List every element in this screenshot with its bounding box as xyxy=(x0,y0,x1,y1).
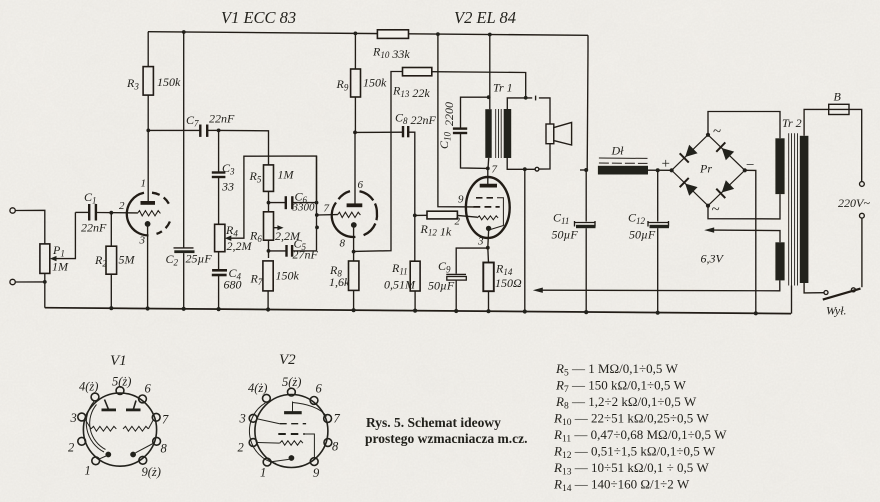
svg-text:4(ż): 4(ż) xyxy=(248,381,267,395)
svg-text:4(ż): 4(ż) xyxy=(79,380,98,394)
resistor R10 xyxy=(377,30,408,39)
screen supply wire (pin 9) xyxy=(438,34,474,207)
node xyxy=(146,306,150,310)
V2 heater arc xyxy=(249,403,276,464)
capacitor C3 xyxy=(212,173,226,225)
svg-text:R13 — 10÷51 kΩ/0,1 ÷ 0,5 W: R13 — 10÷51 kΩ/0,1 ÷ 0,5 W xyxy=(553,460,709,478)
node xyxy=(413,309,417,313)
choke Dl laminations xyxy=(599,158,648,163)
wire xyxy=(15,281,45,283)
V1 base pin 3 xyxy=(78,413,86,421)
node bridge bottom ~ xyxy=(706,204,710,208)
svg-text:~: ~ xyxy=(713,124,721,140)
V1 base pin 2 xyxy=(78,437,86,445)
capacitor C12 xyxy=(648,170,670,313)
svg-text:3: 3 xyxy=(70,411,77,425)
svg-text:1,6k: 1,6k xyxy=(329,275,350,289)
transformer Tr2 HV winding xyxy=(775,138,784,194)
wire Tr2 core to ground xyxy=(791,286,793,314)
V2 g1 xyxy=(258,441,303,446)
V2 base pin 8 xyxy=(324,439,332,447)
label R2 xyxy=(94,253,136,269)
pin number 8 xyxy=(340,238,346,250)
diode D3 (top-right) xyxy=(716,142,734,160)
label C11 xyxy=(552,211,579,242)
capacitor C9 xyxy=(446,248,488,311)
transformer Tr1 primary winding xyxy=(485,109,491,158)
capacitor C4 xyxy=(212,270,227,309)
node xyxy=(656,168,660,172)
screen grid g2 of V2 (pin 9) xyxy=(474,206,500,208)
svg-text:50µF: 50µF xyxy=(629,228,656,242)
svg-text:V2: V2 xyxy=(279,352,296,368)
svg-text:V1: V1 xyxy=(110,353,127,369)
node xyxy=(352,250,356,254)
svg-text:2: 2 xyxy=(68,441,74,455)
label R3 xyxy=(126,75,181,92)
svg-text:1: 1 xyxy=(85,464,91,478)
svg-text:6: 6 xyxy=(358,179,364,191)
svg-text:prostego wzmacniacza m.cz.: prostego wzmacniacza m.cz. xyxy=(365,431,527,446)
tube base V2 title xyxy=(279,352,296,368)
label R13 xyxy=(392,84,430,101)
node bridge + xyxy=(670,168,674,172)
grid node vertical xyxy=(316,156,318,251)
wire bridge top to Tr2 HV top xyxy=(708,112,780,139)
diode D1 (top-left) xyxy=(680,144,698,162)
tube V1b envelope xyxy=(332,191,377,237)
node xyxy=(584,168,588,172)
label R11 xyxy=(384,261,416,292)
wire Tr2 primary top to fuse xyxy=(804,109,829,135)
tube V1a envelope xyxy=(127,193,170,236)
wire xyxy=(219,130,269,165)
cathode of V2 (pin 3) xyxy=(486,226,491,248)
pin number 9 xyxy=(458,194,464,206)
V2 base pin 3 xyxy=(249,414,257,422)
resistor R7 xyxy=(263,261,273,310)
svg-text:150k: 150k xyxy=(157,75,181,89)
node xyxy=(454,309,458,313)
label C10 rotated xyxy=(437,102,456,149)
V2 base pin 5 xyxy=(288,388,296,396)
node xyxy=(584,310,588,314)
svg-text:7: 7 xyxy=(334,412,341,426)
V1 base pin 7 xyxy=(152,413,160,421)
svg-text:27nF: 27nF xyxy=(293,248,319,262)
label C12 xyxy=(628,211,656,242)
node xyxy=(436,32,440,36)
V2 base pin 4 xyxy=(263,394,271,402)
diode D2 (bottom-left) xyxy=(680,178,698,196)
label B fuse xyxy=(834,90,842,104)
node xyxy=(43,280,47,284)
svg-text:Wył.: Wył. xyxy=(826,304,847,318)
label R4 xyxy=(225,223,253,253)
B+ feed wire xyxy=(580,35,588,170)
label plus xyxy=(662,156,670,172)
svg-text:9(ż): 9(ż) xyxy=(142,465,161,479)
label Wyl xyxy=(826,304,847,318)
node xyxy=(266,307,270,311)
svg-text:7: 7 xyxy=(492,164,498,176)
label R6 xyxy=(249,229,301,245)
label minus xyxy=(746,158,754,174)
svg-text:Tr 2: Tr 2 xyxy=(782,116,802,130)
svg-text:B: B xyxy=(834,90,842,104)
label C6 xyxy=(292,190,316,214)
ground rail xyxy=(45,308,791,314)
svg-text:7: 7 xyxy=(324,203,330,215)
tube base V1 circle xyxy=(83,393,156,466)
bridge rectifier Pr frame xyxy=(672,135,745,206)
V1 heater arc xyxy=(86,402,105,453)
svg-text:5M: 5M xyxy=(119,253,136,267)
V2 g3 dashes xyxy=(257,419,306,424)
svg-text:150Ω: 150Ω xyxy=(495,276,522,290)
suppressor grid g3 of V2 xyxy=(476,198,503,230)
wire terminal to switch xyxy=(861,218,863,287)
V2 g2 dashes xyxy=(278,434,314,457)
cathode of V1b (pin 8) xyxy=(351,222,357,261)
wiper of R6 xyxy=(274,225,284,230)
V2 base pin 9 xyxy=(310,458,318,466)
capacitor C7 xyxy=(148,125,218,137)
capacitor C6 xyxy=(269,196,317,209)
svg-text:33: 33 xyxy=(221,180,234,194)
wire bridge bottom to Tr2 HV bottom xyxy=(708,194,780,219)
node xyxy=(217,307,221,311)
label ~ bottom xyxy=(712,202,720,218)
secondary bottom wire xyxy=(507,144,550,171)
svg-text:7: 7 xyxy=(162,413,169,427)
label P1 xyxy=(52,243,69,274)
node xyxy=(486,309,490,313)
tube V2 envelope xyxy=(466,177,510,238)
svg-text:1: 1 xyxy=(260,466,266,480)
node bridge - xyxy=(743,168,747,172)
label C9 xyxy=(428,259,455,293)
tube base V1 title xyxy=(110,353,127,369)
label C4 xyxy=(224,266,242,292)
svg-text:22nF: 22nF xyxy=(209,112,235,126)
label C5 xyxy=(293,237,319,262)
svg-text:R8 — 1,2÷2 kΩ/0,1÷0,5 W: R8 — 1,2÷2 kΩ/0,1÷0,5 W xyxy=(555,394,697,412)
wire xyxy=(648,169,672,171)
node xyxy=(267,201,271,205)
transformer Tr1 primary wire xyxy=(488,35,490,169)
tube base V2 circle xyxy=(255,395,328,468)
anode of V1b (pin 6) xyxy=(347,132,363,205)
node xyxy=(524,96,528,100)
V1 anode a'' xyxy=(126,401,141,410)
node xyxy=(182,307,186,311)
pin number 3 of V2 xyxy=(477,236,484,248)
svg-text:6: 6 xyxy=(145,382,152,396)
wiper of P1 xyxy=(50,212,76,261)
node xyxy=(486,246,490,250)
wire grid V1b xyxy=(317,214,338,216)
V1 base pin 8 xyxy=(153,437,161,445)
node xyxy=(486,167,490,171)
svg-text:R10 — 22÷51 kΩ/0,25÷0,5 W: R10 — 22÷51 kΩ/0,25÷0,5 W xyxy=(553,411,709,429)
label R8 xyxy=(329,263,350,289)
pin number 6 xyxy=(358,179,364,191)
svg-text:6,3V: 6,3V xyxy=(701,252,725,266)
capacitor C10 xyxy=(453,97,489,168)
pin number 1 xyxy=(141,178,147,190)
wiper of R4 xyxy=(225,156,317,241)
svg-text:9: 9 xyxy=(458,194,464,206)
switch Wyl xyxy=(804,283,860,300)
node xyxy=(315,226,319,230)
V2 pin labels xyxy=(238,375,341,480)
node xyxy=(109,211,113,215)
node xyxy=(488,33,492,37)
resistor R14 xyxy=(483,248,494,312)
resistor R8 xyxy=(349,261,359,310)
node xyxy=(656,311,660,315)
label 6,3V xyxy=(701,252,725,266)
V2 base pin 7 xyxy=(324,415,332,423)
svg-text:50µF: 50µF xyxy=(428,279,455,293)
wire xyxy=(15,210,45,244)
label R10 xyxy=(372,45,410,62)
node bridge top ~ xyxy=(706,133,710,137)
label Pr xyxy=(699,162,712,176)
node xyxy=(182,30,186,34)
node xyxy=(267,249,271,253)
svg-text:3: 3 xyxy=(139,235,146,247)
label ~ top xyxy=(713,124,721,140)
svg-text:Pr: Pr xyxy=(699,162,712,176)
fuse B xyxy=(829,104,849,114)
label 220V xyxy=(838,196,870,210)
resistor R11 xyxy=(410,261,420,311)
svg-text:8: 8 xyxy=(340,238,346,250)
svg-text:2: 2 xyxy=(455,216,461,228)
top rail xyxy=(148,32,588,36)
wire xyxy=(44,273,46,307)
V1 pin labels xyxy=(68,375,169,480)
caption xyxy=(365,415,527,446)
svg-text:+: + xyxy=(662,156,670,172)
svg-text:V2 EL 84: V2 EL 84 xyxy=(454,8,516,27)
pin number 3 xyxy=(139,235,146,247)
label Dl xyxy=(611,144,625,158)
svg-text:8: 8 xyxy=(161,442,168,456)
capacitor C1 xyxy=(75,204,137,221)
pin number 2 of V2 xyxy=(455,216,461,228)
svg-text:R7 — 150 kΩ/0,1÷0,5 W: R7 — 150 kΩ/0,1÷0,5 W xyxy=(555,378,687,396)
grid of V1a (pin 2) xyxy=(137,211,160,216)
V1 grid g' xyxy=(85,420,116,432)
node xyxy=(109,306,113,310)
potentiometer R6 xyxy=(264,212,274,258)
svg-text:1: 1 xyxy=(141,178,147,190)
node xyxy=(353,131,357,135)
label Tr1 xyxy=(493,81,513,95)
pin number 2 xyxy=(119,200,125,212)
potentiometer P1 xyxy=(40,244,50,274)
svg-text:5(ż): 5(ż) xyxy=(282,375,301,389)
diode D4 (bottom-right) xyxy=(716,180,734,198)
secondary top wire xyxy=(507,96,550,124)
label R14 xyxy=(495,262,522,291)
svg-text:9: 9 xyxy=(313,466,320,480)
node xyxy=(146,129,150,133)
control grid g1 of V2 (pin 2) xyxy=(477,216,498,220)
6.3V heater wire 2 xyxy=(533,280,780,293)
pin number 7 xyxy=(324,203,330,215)
node xyxy=(413,214,417,218)
wire xyxy=(183,32,185,248)
V1 base pin 1 xyxy=(92,457,100,465)
node xyxy=(315,213,319,217)
capacitor C5 xyxy=(269,245,317,257)
V1 grid g'' xyxy=(123,420,153,431)
svg-text:5(ż): 5(ż) xyxy=(112,375,131,389)
svg-text:R11 — 0,47÷0,68 MΩ/0,1÷0,5 W: R11 — 0,47÷0,68 MΩ/0,1÷0,5 W xyxy=(553,427,727,445)
node xyxy=(352,308,356,312)
V2 base pin 6 xyxy=(310,397,318,405)
svg-text:Rys. 5. Schemat ideowy: Rys. 5. Schemat ideowy xyxy=(366,415,501,430)
anode of V2 (pin 7) xyxy=(480,168,497,185)
node xyxy=(315,201,319,205)
svg-text:~: ~ xyxy=(712,202,720,218)
transformer Tr1 core xyxy=(496,109,502,158)
svg-text:680: 680 xyxy=(224,278,242,292)
6.3V heater wire 1 xyxy=(704,227,780,242)
svg-text:6: 6 xyxy=(316,382,323,396)
svg-text:1M: 1M xyxy=(278,168,295,182)
svg-text:Tr 1: Tr 1 xyxy=(493,81,513,95)
resistor R5 xyxy=(264,165,274,212)
V1 cathode k' xyxy=(99,452,111,460)
svg-text:150k: 150k xyxy=(363,76,387,90)
label C1 xyxy=(81,190,107,235)
svg-text:0,51M: 0,51M xyxy=(384,278,416,292)
cathode of V1a (pin 3) xyxy=(145,221,151,308)
node xyxy=(217,129,221,133)
label R9 xyxy=(336,76,388,93)
node xyxy=(354,32,358,36)
svg-text:3300: 3300 xyxy=(292,202,316,214)
svg-text:220V~: 220V~ xyxy=(838,196,870,210)
transformer Tr1 secondary winding xyxy=(504,109,512,158)
svg-text:R12 — 0,51÷1,5 kΩ/0,1÷0,5 W: R12 — 0,51÷1,5 kΩ/0,1÷0,5 W xyxy=(553,444,716,462)
svg-text:3: 3 xyxy=(239,412,246,426)
svg-text:−: − xyxy=(746,158,754,174)
svg-text:50µF: 50µF xyxy=(552,228,579,242)
capacitor C2 xyxy=(174,248,195,309)
transformer Tr2 heater winding xyxy=(775,242,784,280)
svg-text:R14 — 140÷160 Ω/1÷2 W: R14 — 140÷160 Ω/1÷2 W xyxy=(553,477,690,495)
capacitor C11 xyxy=(574,170,596,312)
svg-text:2: 2 xyxy=(119,200,125,212)
svg-text:V1 ECC 83: V1 ECC 83 xyxy=(221,8,296,27)
svg-text:Dł: Dł xyxy=(611,144,625,158)
V2 cathode xyxy=(271,455,294,462)
V1 base pin 5 xyxy=(116,387,124,395)
V1 cathode k'' xyxy=(130,444,153,458)
V2 anode xyxy=(284,402,326,417)
transformer Tr2 core xyxy=(789,133,798,285)
svg-text:2,2M: 2,2M xyxy=(227,239,253,253)
label C8 xyxy=(395,111,437,128)
label Tr2 xyxy=(782,116,802,130)
svg-text:25µF: 25µF xyxy=(186,252,213,266)
svg-text:1M: 1M xyxy=(52,260,69,274)
label R12 xyxy=(420,222,452,239)
svg-text:8: 8 xyxy=(332,440,339,454)
svg-text:R5 — 1 MΩ/0,1÷0,5 W: R5 — 1 MΩ/0,1÷0,5 W xyxy=(555,361,679,379)
resistor R9 xyxy=(351,33,361,132)
svg-text:3: 3 xyxy=(477,236,484,248)
loudspeaker xyxy=(546,122,572,145)
capacitor C8 xyxy=(355,126,415,261)
pin number 7 of V2 xyxy=(492,164,498,176)
mains terminal bottom xyxy=(860,213,865,218)
wire fuse to terminal xyxy=(849,109,862,181)
heading V2 EL 84 xyxy=(454,8,516,27)
V2 base pin 2 xyxy=(249,439,257,447)
node xyxy=(523,167,527,171)
heading V1 ECC 83 xyxy=(221,8,296,27)
V1 anode a' xyxy=(102,400,117,410)
svg-text:2: 2 xyxy=(238,441,244,455)
svg-text:150k: 150k xyxy=(276,269,300,283)
label R7 xyxy=(250,269,300,288)
wire bridge minus to ground xyxy=(745,170,756,313)
node xyxy=(754,311,758,315)
node xyxy=(487,95,491,99)
V2 base pin 1 xyxy=(263,458,271,466)
grid of V1b (pin 7) xyxy=(337,212,360,217)
anode of V1a (pin 1) xyxy=(141,130,156,203)
resistor R13 xyxy=(354,68,526,252)
label C3 xyxy=(221,161,235,194)
V1 base pin 6 xyxy=(139,395,147,403)
label R5 xyxy=(249,168,295,185)
potentiometer R4 xyxy=(215,224,225,269)
V1 base pin 9 xyxy=(139,456,147,464)
label C2 xyxy=(166,252,213,268)
label C7 xyxy=(186,112,235,129)
input jack top xyxy=(10,208,15,213)
wire secondary ground xyxy=(524,169,526,311)
V1 base pin 4 xyxy=(91,393,99,401)
svg-text:2200: 2200 xyxy=(442,102,456,126)
parts list xyxy=(553,361,727,494)
mains terminal top xyxy=(860,182,865,187)
wire xyxy=(218,130,220,171)
resistor R3 xyxy=(143,32,153,131)
choke Dl winding xyxy=(598,166,648,175)
node xyxy=(523,309,527,313)
svg-text:22nF: 22nF xyxy=(81,221,107,235)
resistor R2 xyxy=(106,213,117,309)
transformer Tr2 primary winding xyxy=(800,136,809,283)
input jack bottom xyxy=(10,279,15,284)
resistor R12 xyxy=(415,211,478,219)
